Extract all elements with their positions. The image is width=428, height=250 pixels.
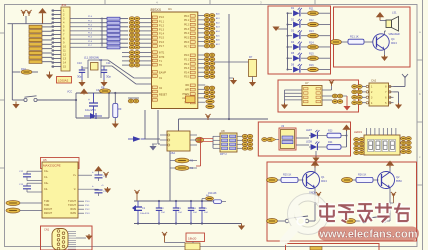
svg-text:CN1: CN1 (44, 228, 50, 232)
svg-text:RESET: RESET (159, 94, 168, 97)
switch S1 (reset) (12, 96, 76, 102)
svg-text:P0.1: P0.1 (184, 19, 190, 22)
capacitor C12 (19, 171, 42, 181)
power VCC at C9 (67, 89, 88, 95)
power symbol at C14 (103, 172, 108, 178)
svg-text:18b20: 18b20 (188, 237, 197, 241)
svg-text:P3.3: P3.3 (85, 213, 90, 215)
capacitor C1 (electrolytic) (132, 201, 150, 224)
resistor R10 (12, 67, 38, 74)
pads left of display (354, 138, 365, 155)
svg-text:R2IN: R2IN (71, 212, 77, 215)
svg-text:P1.3: P1.3 (159, 29, 165, 32)
capacitor C9 10u/25V (85, 88, 100, 118)
ground LED box (272, 27, 280, 32)
svg-text:R10: R10 (21, 67, 26, 71)
IC U7 (302, 81, 332, 106)
ground cap row (238, 224, 245, 231)
connector JN1 (52, 3, 70, 71)
svg-text:T2IN: T2IN (44, 204, 49, 207)
capacitor C13 (19, 183, 42, 192)
ground at C15 (101, 185, 111, 193)
wire cap row rails (134, 200, 242, 225)
LED D6 (288, 63, 308, 72)
svg-text:EA/VP: EA/VP (159, 72, 166, 75)
resistor R7 (vertical) (214, 55, 257, 80)
svg-text:100uF/16: 100uF/16 (140, 213, 150, 215)
red group box LED array (268, 6, 331, 74)
svg-text:www.elecfans.com: www.elecfans.com (318, 229, 417, 241)
svg-text:P1.5: P1.5 (159, 37, 165, 40)
pads right of display (401, 137, 412, 154)
svg-text:P3.1: P3.1 (85, 205, 90, 207)
red group box U7 (278, 80, 359, 112)
svg-text:T2OUT: T2OUT (68, 204, 76, 207)
power symbol VCC (double) (21, 10, 32, 24)
jumper pads CH2 (352, 85, 369, 105)
svg-text:T1OUT: T1OUT (68, 200, 76, 203)
resistor R5 (175, 158, 194, 163)
IC U5 MAX232CPE (42, 158, 78, 218)
svg-text:LED19: LED19 (354, 130, 362, 134)
LED D7 (306, 129, 327, 139)
pad Q2 input (342, 177, 357, 182)
svg-text:X2: X2 (99, 58, 103, 62)
ground speaker (381, 50, 388, 62)
pad Q1 input (267, 177, 282, 182)
power VCC LED pair (342, 125, 350, 132)
svg-text:P1.1: P1.1 (159, 20, 165, 23)
ground at R9 (112, 121, 119, 128)
transistor Q2 8550 (378, 172, 403, 189)
pads P2 port (204, 53, 215, 78)
wires into U8 (213, 136, 220, 148)
resistor R8 (100, 86, 111, 94)
wire Q2 emitter (389, 188, 391, 221)
resistor RL4 (308, 41, 331, 49)
wire reset net (75, 92, 152, 118)
svg-text:R16: R16 (309, 64, 314, 67)
svg-text:U7: U7 (305, 81, 309, 85)
jumper pads U8 out (237, 134, 253, 150)
transistor Q1 9013 (303, 172, 328, 189)
svg-text:P0.5: P0.5 (184, 37, 190, 40)
capacitor C2 104 (156, 201, 166, 224)
svg-text:C11: C11 (106, 61, 111, 65)
switch S2 (285, 216, 315, 223)
connector CN1 DB9 (44, 228, 76, 250)
svg-text:R9: R9 (118, 107, 122, 111)
svg-text:P1.4: P1.4 (159, 33, 165, 36)
ground U7 (281, 103, 288, 109)
power VCC U5 (94, 166, 102, 171)
svg-text:RD: RD (186, 84, 190, 87)
svg-text:P2.4: P2.4 (184, 71, 190, 74)
svg-text:P2.1: P2.1 (184, 59, 190, 62)
svg-text:Q1: Q1 (321, 175, 325, 179)
svg-text:P2.0: P2.0 (184, 54, 190, 57)
svg-text:AD2: AD2 (216, 21, 220, 24)
svg-text:U5: U5 (43, 158, 47, 162)
resistor RL6 (308, 64, 331, 72)
svg-text:INT1: INT1 (159, 52, 165, 55)
watermark elecfans logo and text (284, 194, 419, 242)
svg-text:R15: R15 (309, 53, 314, 56)
svg-text:P1.6: P1.6 (159, 41, 165, 44)
wire Q1 emitter (309, 188, 316, 221)
ground at C11 (100, 80, 107, 87)
capacitor C3 104 (173, 201, 183, 224)
crystal label 11.0592M (84, 56, 99, 60)
label box LDS/A2 (57, 77, 72, 84)
jumper pads P1 port (129, 17, 151, 49)
speaker LS1 (386, 11, 400, 37)
sensor DS18B20 (185, 233, 205, 250)
LED D5 (288, 52, 308, 61)
antenna symbol (402, 74, 408, 82)
svg-text:SPEAKER: SPEAKER (388, 33, 400, 36)
svg-text:P2.2: P2.2 (184, 63, 190, 66)
wire collector (385, 31, 387, 35)
svg-text:P3.2: P3.2 (85, 209, 90, 211)
svg-text:AD1: AD1 (216, 17, 220, 20)
svg-text:R21 1K: R21 1K (350, 35, 359, 39)
svg-text:P2.3: P2.3 (184, 67, 190, 70)
LED D8 (306, 141, 327, 151)
svg-text:+: + (92, 184, 94, 188)
pad S3 (345, 218, 363, 223)
resistor R4 + diode (202, 192, 226, 203)
svg-text:1N4148: 1N4148 (208, 192, 217, 195)
power VCC Q1 collector (311, 161, 319, 168)
capacitor C14 (78, 170, 108, 181)
svg-text:RP? 2: RP? 2 (220, 153, 227, 156)
svg-text:LED8: LED8 (306, 141, 313, 144)
svg-text:Q2: Q2 (396, 175, 400, 179)
resistor pack RP1 (8 resistors) (100, 17, 128, 49)
svg-text:R24: R24 (328, 141, 333, 144)
resistor R24 (327, 141, 347, 149)
LED D2 (288, 18, 308, 27)
svg-text:30p: 30p (77, 75, 82, 79)
svg-text:INT0: INT0 (159, 56, 165, 59)
ground at S1 (12, 102, 19, 109)
red group box speaker (334, 7, 411, 67)
ground (blue) U6 (149, 144, 157, 151)
resistor R23 (327, 130, 347, 138)
wires U9 to LEDs (276, 138, 309, 145)
svg-text:P0.2: P0.2 (184, 24, 190, 27)
ground below R7 (249, 80, 256, 87)
ground at C10 (78, 80, 85, 87)
red group box LED pair (258, 122, 350, 156)
svg-text:R25 1K: R25 1K (283, 174, 292, 177)
svg-text:VCC: VCC (67, 91, 72, 94)
diode D6 (blue arrow) (128, 136, 145, 142)
svg-text:P0.7: P0.7 (184, 45, 190, 48)
svg-text:MAX232CPE: MAX232CPE (43, 164, 61, 168)
red frame U5 label (41, 158, 80, 169)
IC CH2 (369, 79, 394, 107)
svg-text:LS1: LS1 (392, 11, 397, 15)
svg-text:Ch2: Ch2 (371, 79, 377, 83)
svg-text:89SXX: 89SXX (151, 8, 162, 12)
svg-text:Q4: Q4 (391, 37, 395, 41)
svg-text:PSEN: PSEN (182, 93, 189, 96)
svg-text:R2OUT: R2OUT (44, 212, 53, 215)
svg-text:R14: R14 (309, 41, 314, 44)
power VCC Q2 collector (386, 161, 394, 168)
resistor RL5 (308, 53, 331, 61)
svg-text:LED7: LED7 (306, 129, 313, 132)
svg-text:C2+: C2+ (44, 182, 49, 185)
capacitor C4 104 (188, 201, 198, 224)
svg-text:(11.0592M): (11.0592M) (84, 56, 99, 60)
resistor R25 (281, 174, 304, 183)
svg-text:U8: U8 (221, 129, 225, 133)
resistor network stack R11-R19 (29, 25, 52, 63)
wires U5 right (78, 201, 90, 215)
svg-text:U6A: U6A (170, 151, 175, 155)
svg-text:9013: 9013 (391, 41, 397, 45)
red group box transistors (267, 162, 417, 241)
svg-text:WR: WR (185, 89, 189, 92)
red group box bottom (286, 244, 380, 250)
red net wires (196, 137, 214, 166)
svg-text:+: + (92, 170, 94, 174)
svg-text:R12: R12 (309, 19, 314, 22)
red group box CN1 (41, 226, 93, 250)
svg-text:C1+: C1+ (44, 170, 49, 173)
ground CN1 (76, 234, 93, 240)
wire vertical bus (179, 14, 269, 131)
resistor R21 (base) (348, 35, 373, 45)
diode D9 (reset) (84, 113, 102, 119)
ground (red) U7 box (343, 96, 351, 111)
svg-text:AD7: AD7 (216, 43, 220, 46)
IC U6 (160, 131, 197, 155)
power VCC cap row (134, 190, 139, 201)
LED D3 (288, 30, 308, 39)
resistor RL3 (308, 30, 331, 38)
svg-text:+: + (88, 98, 90, 102)
svg-text:P0.4: P0.4 (184, 32, 190, 35)
svg-text:AD0: AD0 (216, 13, 220, 16)
svg-text:C1-: C1- (44, 176, 48, 179)
wire CH2 right (394, 82, 406, 103)
resistor R6 (175, 166, 194, 171)
optocoupler U9 (279, 125, 296, 150)
LED D4 (288, 41, 308, 50)
wire top-left horizontal (8, 24, 53, 100)
svg-text:V-: V- (74, 188, 76, 191)
wire to VCC LED pair (346, 131, 348, 147)
svg-text:C2-: C2- (44, 188, 48, 191)
capacitor C11 30p (101, 61, 112, 80)
svg-text:JN1: JN1 (61, 3, 67, 7)
pads group 3 (204, 86, 215, 108)
wire LED common (280, 12, 289, 70)
svg-text:P0.3: P0.3 (184, 28, 190, 31)
svg-text:30p: 30p (106, 75, 111, 79)
svg-text:P0.0: P0.0 (184, 15, 190, 18)
svg-text:AD4: AD4 (216, 30, 220, 33)
svg-text:9013: 9013 (321, 179, 327, 183)
capacitor C15 (78, 184, 108, 196)
power VCC Q1 (315, 192, 321, 203)
7-segment display DS1 (354, 128, 400, 155)
svg-text:R23: R23 (328, 130, 333, 133)
capacitor C10 30p (77, 61, 88, 80)
resistor R9 (reset pulldown) (113, 92, 122, 121)
vertical feed to cap row (169, 200, 171, 202)
svg-text:T1IN: T1IN (44, 200, 49, 203)
svg-text:P1.0: P1.0 (159, 16, 165, 19)
resistor R26 (356, 174, 379, 183)
wires U7 left (285, 90, 303, 103)
svg-text:P0.6: P0.6 (184, 41, 190, 44)
ground CH2 (395, 103, 402, 109)
jumper pads reset (128, 98, 139, 103)
svg-text:P3.0: P3.0 (85, 201, 90, 203)
svg-text:R11: R11 (309, 8, 314, 11)
svg-text:U1: U1 (168, 7, 172, 11)
svg-text:R1IN: R1IN (71, 208, 77, 211)
IC U8 driver (220, 129, 237, 156)
svg-text:P2.5: P2.5 (184, 76, 190, 79)
pads T1/R1 (6, 201, 42, 206)
pull-up pads P0 port (204, 13, 219, 48)
ground LED pair (312, 151, 319, 162)
LED D1 (288, 7, 308, 16)
power VCC U7 (322, 80, 334, 90)
svg-text:AD5: AD5 (216, 34, 220, 37)
jumper pads U7 (332, 94, 343, 103)
wire Q2 collector (389, 167, 391, 172)
svg-text:R1OUT: R1OUT (44, 208, 53, 211)
svg-text:C10: C10 (77, 61, 82, 65)
svg-text:P1.2: P1.2 (159, 24, 165, 27)
power VCC speaker (376, 12, 386, 21)
switch S3 (362, 216, 390, 223)
power VCC Q2 (390, 192, 396, 203)
svg-text:AD6: AD6 (216, 39, 220, 42)
pads LED pair box (262, 137, 276, 142)
resistor RL1 (308, 8, 331, 16)
wire from U1 bottom (145, 110, 160, 144)
svg-text:R13: R13 (309, 30, 314, 33)
wire Q1 collector (314, 167, 316, 172)
IC U1 89SXX microcontroller (151, 7, 206, 109)
svg-text:LDS/A2: LDS/A2 (58, 79, 69, 83)
pad speaker input (331, 39, 349, 44)
svg-text:P1.7: P1.7 (159, 45, 165, 48)
svg-text:AD3: AD3 (216, 26, 220, 29)
pads T2/R2 (6, 208, 42, 213)
svg-text:R7: R7 (249, 55, 253, 59)
power VCC near U1 (205, 114, 210, 120)
transistor Q4 9013 (373, 34, 398, 50)
ground on bus (229, 78, 237, 85)
crystal X2 (88, 58, 152, 84)
pad S2 (267, 218, 286, 223)
svg-text:10u/25V: 10u/25V (85, 108, 96, 112)
resistor RL2 (308, 19, 331, 27)
jumper pads group 2 (122, 51, 152, 67)
wire bundle JN1-RP1 (70, 16, 100, 47)
capacitor C5 104 (199, 201, 209, 224)
ground below JN1 (46, 72, 53, 80)
svg-text:8550: 8550 (396, 179, 402, 183)
power symbol VCC arrow (38, 8, 46, 24)
wire U6 resistors (170, 151, 197, 201)
svg-text:R26 1K: R26 1K (358, 174, 367, 177)
power VCC 18B20 (162, 232, 185, 243)
